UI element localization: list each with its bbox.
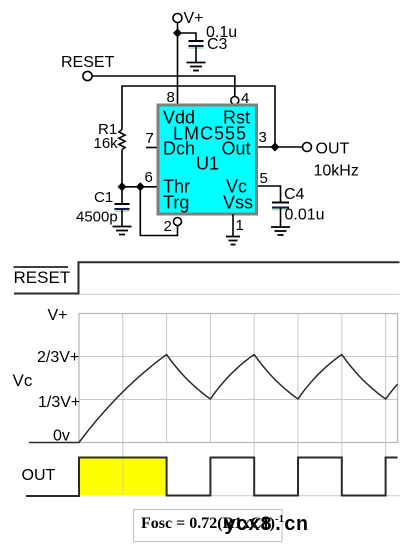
OUT waveform trace xyxy=(26,458,398,497)
grid stubs between rows xyxy=(123,443,386,496)
svg-text:2: 2 xyxy=(164,218,172,235)
inversion bubble pin 2 xyxy=(174,218,182,226)
ground for pin 1 xyxy=(226,237,240,245)
grid line through yellow pulse xyxy=(122,458,124,496)
OUT terminal xyxy=(303,143,312,152)
wire Trg loop xyxy=(140,187,177,236)
node junction Thr/Trg xyxy=(136,182,145,191)
wire RESET to pin 4 xyxy=(92,76,235,96)
svg-text:4500p: 4500p xyxy=(76,209,118,226)
ground for C4 xyxy=(271,227,290,235)
svg-text:Trg: Trg xyxy=(163,192,189,212)
svg-text:7: 7 xyxy=(146,130,154,147)
RESET waveform trace xyxy=(14,262,400,293)
OUT baseline gray xyxy=(167,495,400,497)
wire junction to C3 xyxy=(178,33,197,40)
wire Out to OUT terminal xyxy=(258,146,303,148)
wire R1 to C1 xyxy=(121,150,123,204)
svg-text:C4: C4 xyxy=(284,186,305,203)
RESET terminal xyxy=(83,71,92,80)
ground for C1 xyxy=(113,227,132,235)
resistor R1 xyxy=(119,130,125,150)
svg-text:Vss: Vss xyxy=(223,192,253,212)
V+ terminal xyxy=(173,14,182,23)
svg-text:Vc: Vc xyxy=(13,371,33,390)
svg-text:5: 5 xyxy=(260,170,268,187)
svg-text:V+: V+ xyxy=(184,10,204,27)
svg-text:RESET: RESET xyxy=(61,54,115,71)
svg-text:OUT: OUT xyxy=(316,141,350,158)
RESET waveform baseline gray xyxy=(79,293,400,295)
svg-text:ycx8.cn: ycx8.cn xyxy=(224,514,308,537)
capacitor C3 xyxy=(189,41,204,62)
svg-text:RESET: RESET xyxy=(14,268,71,287)
svg-text:8: 8 xyxy=(167,89,175,106)
wire pin 1 to ground xyxy=(232,214,234,236)
node junction R1/C1 xyxy=(118,182,127,191)
svg-text:C1: C1 xyxy=(94,189,113,206)
Vc plot border xyxy=(79,314,398,443)
formula box xyxy=(134,510,283,542)
Vc plot grid xyxy=(79,314,398,443)
svg-text:C3: C3 xyxy=(207,36,228,53)
svg-text:OUT: OUT xyxy=(22,467,56,484)
inversion bubble pin 4 xyxy=(231,97,239,105)
svg-text:16k: 16k xyxy=(94,135,119,152)
svg-text:10kHz: 10kHz xyxy=(314,163,359,180)
svg-text:U1: U1 xyxy=(196,154,219,174)
node junction Out xyxy=(271,143,280,152)
wire pin 5 to C4 xyxy=(258,186,281,202)
svg-text:Out: Out xyxy=(222,139,251,159)
op-amp U1 LMC555 body xyxy=(158,105,257,214)
svg-text:6: 6 xyxy=(145,169,153,186)
node junction at V+/C3 xyxy=(173,29,182,38)
OUT first pulse yellow highlight xyxy=(79,458,167,496)
svg-text:3: 3 xyxy=(259,129,267,146)
svg-text:Dch: Dch xyxy=(163,139,195,159)
Vc waveform trace xyxy=(29,355,398,443)
ground for C3 xyxy=(187,63,206,71)
svg-text:1/3V+: 1/3V+ xyxy=(38,394,80,411)
wire V+ to pin 8 xyxy=(177,22,179,103)
svg-text:V+: V+ xyxy=(48,307,68,324)
wire OUT feedback top xyxy=(122,86,275,147)
svg-text:1: 1 xyxy=(236,217,244,234)
capacitor C1 xyxy=(115,204,130,226)
svg-text:0.01u: 0.01u xyxy=(285,207,325,224)
capacitor C4 xyxy=(272,203,289,227)
wire to pin 6 xyxy=(122,186,157,188)
svg-text:2/3V+: 2/3V+ xyxy=(37,349,79,366)
pin 7 stub xyxy=(146,147,157,149)
